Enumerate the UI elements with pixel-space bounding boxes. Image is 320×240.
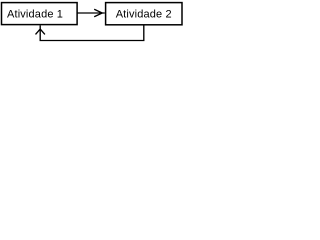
wire feedback loop	[40, 25, 144, 41]
svg-text:Atividade 1: Atividade 1	[7, 8, 63, 20]
arrowhead up	[36, 29, 45, 34]
box Atividade 2	[106, 3, 182, 25]
box Atividade 1	[2, 3, 78, 25]
arrowhead right	[94, 9, 102, 16]
svg-text:Atividade 2: Atividade 2	[116, 8, 172, 20]
wire arrow box1 to box2	[78, 12, 105, 14]
